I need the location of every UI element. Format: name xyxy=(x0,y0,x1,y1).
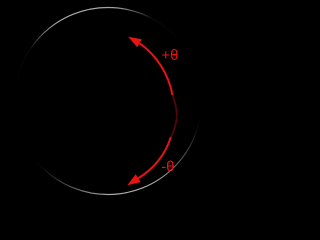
circle (faint, fading at sides) xyxy=(15,8,202,195)
diagram: positive/negative angle rotation xyxy=(0,0,220,204)
wire: -theta arc fade-in from junction xyxy=(171,117,177,138)
svg-text:+θ: +θ xyxy=(161,47,178,64)
wire: -theta red arc xyxy=(138,137,171,178)
svg-text:-θ: -θ xyxy=(161,158,174,175)
arrowhead -theta xyxy=(127,174,140,185)
wire: +theta red arc xyxy=(140,43,173,95)
wire: +theta arc fade-in from junction xyxy=(173,95,178,116)
arrowhead +theta xyxy=(128,37,142,47)
